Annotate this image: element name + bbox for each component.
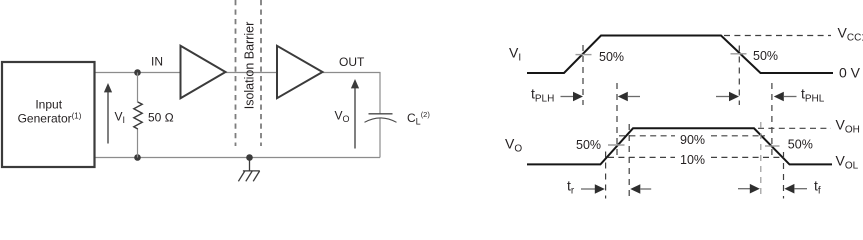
wire: input generator top output to buffer U1 input <box>95 72 180 74</box>
dashed vertical: VI falling 50% <box>738 46 740 106</box>
dashed level: 90% left part <box>619 135 675 137</box>
svg-text:Isolation Barrier: Isolation Barrier <box>242 22 256 110</box>
wire: load vertical drop lower segment <box>379 119 381 158</box>
isolation barrier right dashed line <box>260 0 262 146</box>
arrow: tPHL right <box>774 92 784 102</box>
wire: U2 output to load <box>323 72 381 74</box>
isolation barrier left dashed line <box>235 0 237 146</box>
dashed vertical: tf 90% <box>760 122 762 199</box>
arrow: VI measurement arrow <box>107 90 109 144</box>
dashed level: VOH <box>758 127 831 129</box>
arrow: tr left <box>581 188 596 190</box>
node: resistor bottom junction dot <box>134 154 141 161</box>
arrow: VO measurement arrow <box>354 86 356 149</box>
dashed vertical: tr 10% <box>605 152 607 199</box>
node: IN junction dot <box>134 69 141 76</box>
dashed vertical: VO rising 50% <box>616 83 618 157</box>
svg-text:0 V: 0 V <box>839 65 861 81</box>
dashed vertical: VO falling 50% <box>771 83 773 157</box>
wire: bottom return rail <box>95 157 380 159</box>
tick: VO rising 50% <box>608 144 625 146</box>
dashed vertical: VI rising 50% <box>582 45 584 105</box>
svg-text:OUT: OUT <box>339 55 365 69</box>
arrow: tr right <box>630 184 640 194</box>
buffer U1 <box>181 46 226 98</box>
arrow: tf left <box>738 188 751 190</box>
buffer U2 <box>277 46 323 98</box>
svg-text:50%: 50% <box>753 49 778 63</box>
waveform VI <box>527 36 833 74</box>
arrow: tPLH left <box>561 96 575 98</box>
waveform VO <box>527 128 832 164</box>
dashed level: 10% right part <box>711 156 782 158</box>
svg-text:50%: 50% <box>788 137 813 151</box>
svg-text:50 Ω: 50 Ω <box>148 111 174 125</box>
resistor R 50 ohm <box>137 73 139 103</box>
arrow: tPLH right <box>618 92 628 102</box>
dashed vertical: tr 90% <box>628 124 630 199</box>
tick: VI falling 50% <box>731 53 747 55</box>
dashed level: 10% left part <box>608 156 675 158</box>
tick: VO falling 50% <box>765 145 780 147</box>
svg-text:Input: Input <box>35 98 62 112</box>
capacitor CL top plate <box>369 113 393 115</box>
svg-text:50%: 50% <box>576 138 601 152</box>
svg-text:50%: 50% <box>599 50 624 64</box>
svg-text:IN: IN <box>151 55 163 69</box>
wire: load vertical drop upper segment <box>379 72 381 114</box>
dashed vertical: tf 10% <box>783 152 785 199</box>
capacitor CL curved bottom plate <box>365 118 397 122</box>
svg-text:10%: 10% <box>680 153 705 167</box>
arrow: tPHL left <box>716 96 730 98</box>
arrow: tf right <box>784 184 794 194</box>
input generator box <box>2 62 95 167</box>
ground <box>238 158 259 182</box>
dashed level: 90% right part <box>711 135 765 137</box>
wire: U1 output through isolation barrier to U2 input <box>226 72 277 74</box>
svg-text:90%: 90% <box>680 133 705 147</box>
node: ground junction dot <box>246 154 253 161</box>
tick: VI rising 50% <box>576 54 592 56</box>
dashed level: VCC1 <box>724 35 831 37</box>
